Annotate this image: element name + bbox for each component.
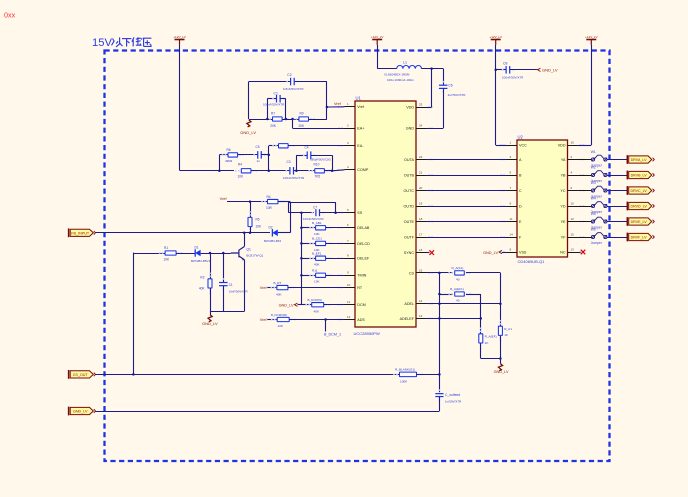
- svg-text:19: 19: [419, 201, 423, 205]
- svg-text:DRVE_LV: DRVE_LV: [631, 220, 648, 224]
- svg-text:VLS6045EX-1R0M: VLS6045EX-1R0M: [384, 73, 410, 77]
- svg-text:1n/50V/X7R: 1n/50V/X7R: [445, 400, 462, 404]
- svg-text:40K: 40K: [314, 309, 320, 313]
- svg-text:R4: R4: [267, 195, 271, 199]
- svg-text:49R9: 49R9: [225, 159, 233, 163]
- svg-text:20K: 20K: [270, 124, 277, 128]
- svg-text:C1: C1: [274, 92, 278, 96]
- svg-text:10: 10: [571, 201, 575, 205]
- svg-text:GND_LV: GND_LV: [542, 68, 558, 73]
- svg-text:R5: R5: [256, 218, 260, 222]
- svg-text:6.8nF/50V/X7R: 6.8nF/50V/X7R: [283, 87, 304, 91]
- svg-text:R_A(EF1): R_A(EF1): [450, 287, 464, 291]
- svg-text:L1: L1: [403, 61, 407, 65]
- svg-text:GND_LV: GND_LV: [494, 370, 509, 374]
- svg-text:C8: C8: [503, 62, 507, 66]
- svg-text:R_A(S1): R_A(S1): [452, 266, 464, 270]
- svg-text:10nF/50V/X7R: 10nF/50V/X7R: [229, 289, 248, 293]
- svg-text:B_DCM_1: B_DCM_1: [324, 332, 341, 336]
- svg-text:22: 22: [419, 155, 423, 159]
- svg-text:16: 16: [571, 140, 575, 144]
- svg-text:16: 16: [419, 248, 423, 252]
- svg-text:7K5: 7K5: [315, 174, 321, 178]
- svg-text:R7: R7: [271, 111, 275, 115]
- svg-text:B_RT: B_RT: [274, 281, 282, 285]
- svg-text:OUTA: OUTA: [404, 158, 415, 162]
- svg-text:ADELEF: ADELEF: [400, 317, 415, 321]
- svg-text:R1: R1: [164, 246, 168, 250]
- svg-text:C1: C1: [229, 283, 233, 287]
- svg-text:U1: U1: [356, 96, 362, 101]
- svg-text:17: 17: [419, 232, 423, 236]
- svg-text:DELCD: DELCD: [357, 242, 370, 246]
- svg-text:CS_OUT: CS_OUT: [73, 373, 89, 377]
- svg-text:SYNC: SYNC: [404, 251, 415, 255]
- svg-text:UCC28950PW: UCC28950PW: [354, 331, 380, 336]
- svg-text:VDD: VDD: [558, 143, 566, 147]
- svg-text:+12V_LV: +12V_LV: [371, 35, 385, 39]
- svg-text:GND_LV: GND_LV: [240, 130, 256, 135]
- svg-text:OUTD: OUTD: [404, 204, 415, 208]
- svg-text:EA+: EA+: [357, 127, 364, 131]
- svg-text:GND_LV: GND_LV: [202, 321, 218, 326]
- svg-text:40K: 40K: [276, 292, 282, 296]
- svg-text:Vref: Vref: [260, 318, 268, 322]
- svg-text:100nF/50V/X7R: 100nF/50V/X7R: [263, 103, 285, 107]
- svg-text:VSS: VSS: [519, 250, 527, 254]
- svg-text:R10: R10: [314, 163, 320, 167]
- svg-text:R6: R6: [227, 148, 231, 152]
- svg-text:10K: 10K: [238, 174, 245, 178]
- svg-text:R_A1: R_A1: [504, 327, 512, 331]
- svg-text:18: 18: [419, 217, 423, 221]
- svg-text:OUTE: OUTE: [404, 220, 415, 224]
- svg-text:20: 20: [419, 186, 423, 190]
- svg-text:DELEF: DELEF: [357, 257, 370, 261]
- svg-text:40K: 40K: [199, 287, 206, 291]
- svg-text:100u 1000mA 100m: 100u 1000mA 100m: [387, 78, 414, 82]
- svg-text:BZX384-B15: BZX384-B15: [264, 239, 282, 243]
- svg-text:D: D: [519, 204, 522, 208]
- svg-text:COMP: COMP: [357, 168, 369, 172]
- svg-text:+12V_LV: +12V_LV: [489, 35, 503, 39]
- svg-text:Q1: Q1: [246, 247, 251, 251]
- svg-text:DRVA_LV: DRVA_LV: [631, 158, 647, 162]
- svg-text:BC817W-Q1: BC817W-Q1: [246, 253, 263, 257]
- svg-text:10: 10: [347, 283, 351, 287]
- svg-text:SS: SS: [357, 211, 362, 215]
- svg-text:15: 15: [571, 232, 575, 236]
- svg-text:VCC: VCC: [519, 143, 527, 147]
- svg-text:W2: W2: [591, 165, 596, 169]
- svg-text:C4: C4: [305, 146, 309, 150]
- svg-text:14: 14: [419, 299, 423, 303]
- svg-text:100nF/50V/X7R: 100nF/50V/X7R: [502, 76, 524, 80]
- svg-text:DRVC_LV: DRVC_LV: [630, 189, 647, 193]
- svg-text:12: 12: [571, 217, 575, 221]
- svg-text:1u: 1u: [257, 159, 261, 163]
- svg-text:0xx: 0xx: [4, 11, 16, 20]
- svg-text:24: 24: [419, 124, 423, 128]
- svg-text:DRVD_LV: DRVD_LV: [630, 205, 647, 209]
- svg-text:R11: R11: [312, 268, 318, 272]
- svg-text:YB: YB: [561, 173, 566, 177]
- svg-text:R4: R4: [238, 163, 242, 167]
- svg-text:W4: W4: [591, 196, 596, 200]
- svg-text:+12V_LV: +12V_LV: [173, 35, 187, 39]
- svg-text:DELAB: DELAB: [357, 226, 370, 230]
- svg-text:ADEL: ADEL: [404, 302, 414, 306]
- svg-text:14: 14: [510, 232, 514, 236]
- svg-text:B_CD1: B_CD1: [312, 237, 322, 241]
- svg-text:DRVB_LV: DRVB_LV: [631, 174, 648, 178]
- svg-text:B_DCM(S): B_DCM(S): [308, 298, 323, 302]
- svg-text:13: 13: [571, 247, 575, 251]
- svg-text:YC: YC: [560, 189, 565, 193]
- svg-text:C_outfeed: C_outfeed: [445, 393, 460, 397]
- svg-text:RT: RT: [357, 286, 363, 290]
- svg-text:GND_LV: GND_LV: [73, 410, 88, 414]
- svg-text:12: 12: [347, 315, 351, 319]
- svg-text:R9: R9: [300, 111, 304, 115]
- svg-text:VDD: VDD: [406, 105, 414, 109]
- svg-text:Vref: Vref: [334, 102, 342, 106]
- svg-text:100K: 100K: [400, 379, 408, 383]
- svg-text:C6: C6: [448, 83, 452, 87]
- svg-text:10R: 10R: [266, 206, 273, 210]
- svg-text:OUTB: OUTB: [404, 173, 415, 177]
- svg-text:D2: D2: [269, 225, 273, 229]
- svg-text:C7: C7: [313, 206, 317, 210]
- svg-text:Vref: Vref: [357, 105, 365, 109]
- svg-text:CD4069UB-Q1: CD4069UB-Q1: [518, 259, 546, 264]
- svg-text:Vref: Vref: [260, 286, 268, 290]
- svg-text:13: 13: [419, 314, 423, 318]
- svg-text:GND: GND: [406, 127, 415, 131]
- svg-text:C: C: [519, 189, 522, 193]
- svg-text:YE: YE: [561, 220, 566, 224]
- svg-text:15V: 15V: [92, 37, 112, 49]
- svg-text:C2: C2: [287, 73, 291, 77]
- svg-text:YD: YD: [560, 204, 565, 208]
- svg-text:B_DCM(SR): B_DCM(SR): [271, 313, 287, 317]
- svg-text:10K: 10K: [314, 280, 320, 284]
- svg-text:15: 15: [419, 268, 423, 272]
- svg-text:Vref: Vref: [220, 197, 228, 201]
- svg-text:21: 21: [419, 170, 423, 174]
- svg-text:FB_INPUT: FB_INPUT: [71, 231, 90, 235]
- svg-text:+12V_LV: +12V_LV: [585, 35, 599, 39]
- svg-text:20K: 20K: [299, 124, 306, 128]
- svg-text:DCM: DCM: [357, 303, 365, 307]
- svg-text:BZX384-B5V1: BZX384-B5V1: [191, 259, 211, 263]
- svg-text:11: 11: [510, 217, 513, 221]
- svg-text:NC: NC: [560, 250, 566, 254]
- svg-text:C5: C5: [256, 145, 260, 149]
- svg-text:100nF/50V/X7R: 100nF/50V/X7R: [283, 176, 305, 180]
- svg-text:10K: 10K: [164, 258, 171, 262]
- svg-text:W6: W6: [591, 227, 596, 231]
- svg-text:B_AB1: B_AB1: [312, 221, 322, 225]
- svg-text:40K: 40K: [314, 263, 320, 267]
- svg-text:W3: W3: [591, 181, 596, 185]
- svg-text:EA-: EA-: [357, 144, 364, 148]
- svg-text:40: 40: [456, 299, 460, 303]
- svg-text:C3: C3: [287, 160, 291, 164]
- svg-text:D1: D1: [195, 245, 199, 249]
- svg-text:W1: W1: [591, 150, 596, 154]
- svg-text:ADS: ADS: [357, 318, 365, 322]
- svg-text:Jumper: Jumper: [591, 241, 603, 245]
- svg-text:R_BLANK(S1): R_BLANK(S1): [395, 367, 415, 371]
- svg-text:11: 11: [347, 300, 350, 304]
- svg-text:B_EF1: B_EF1: [312, 251, 322, 255]
- svg-text:680pF/50V/C0G: 680pF/50V/C0G: [310, 158, 332, 162]
- svg-text:OUTC: OUTC: [404, 189, 415, 193]
- svg-text:YF: YF: [561, 235, 566, 239]
- svg-text:OUTF: OUTF: [404, 235, 415, 239]
- svg-text:GND_LV: GND_LV: [279, 303, 294, 307]
- svg-text:10K: 10K: [256, 224, 263, 228]
- svg-text:R2: R2: [200, 276, 204, 280]
- svg-text:YA: YA: [561, 158, 566, 162]
- svg-text:CS: CS: [409, 271, 415, 275]
- svg-text:4u7/50V/X7R: 4u7/50V/X7R: [448, 93, 467, 97]
- svg-text:40: 40: [456, 278, 460, 282]
- svg-text:10K: 10K: [278, 324, 284, 328]
- svg-text:GND_LV: GND_LV: [483, 251, 498, 255]
- svg-text:DRVF_LV: DRVF_LV: [631, 236, 647, 240]
- svg-text:W5: W5: [591, 212, 596, 216]
- svg-text:R_A(EF): R_A(EF): [485, 334, 497, 338]
- svg-text:U2: U2: [518, 134, 524, 139]
- svg-text:TMIN: TMIN: [357, 274, 366, 278]
- svg-text:23: 23: [419, 102, 423, 106]
